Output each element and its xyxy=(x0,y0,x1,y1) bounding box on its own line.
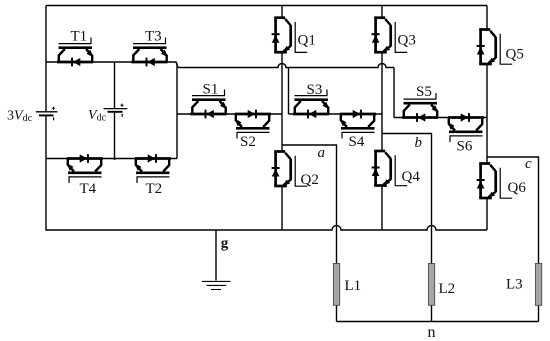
svg-text:S3: S3 xyxy=(307,82,323,98)
svg-text:Q3: Q3 xyxy=(398,33,416,49)
svg-text:S5: S5 xyxy=(416,84,432,100)
svg-text:S1: S1 xyxy=(203,82,219,98)
svg-text:S2: S2 xyxy=(240,134,256,150)
svg-text:Vdc: Vdc xyxy=(88,108,107,124)
svg-text:3Vdc: 3Vdc xyxy=(7,109,33,125)
svg-text:Q6: Q6 xyxy=(508,180,527,196)
svg-text:g: g xyxy=(221,236,229,252)
svg-text:Q4: Q4 xyxy=(402,169,421,185)
svg-text:n: n xyxy=(428,324,436,341)
svg-text:Q1: Q1 xyxy=(298,33,316,49)
svg-text:T3: T3 xyxy=(145,29,162,45)
svg-text:S4: S4 xyxy=(349,134,365,150)
svg-text:L2: L2 xyxy=(439,281,456,297)
svg-text:c: c xyxy=(525,156,532,172)
svg-text:L3: L3 xyxy=(506,277,523,293)
svg-text:Q2: Q2 xyxy=(301,172,319,188)
svg-text:a: a xyxy=(318,145,326,161)
svg-text:T4: T4 xyxy=(80,181,97,197)
svg-text:S6: S6 xyxy=(457,139,473,155)
svg-text:L1: L1 xyxy=(345,278,362,294)
svg-text:Q5: Q5 xyxy=(506,47,524,63)
svg-text:T2: T2 xyxy=(146,181,163,197)
svg-text:b: b xyxy=(415,135,423,151)
svg-text:T1: T1 xyxy=(71,29,88,45)
